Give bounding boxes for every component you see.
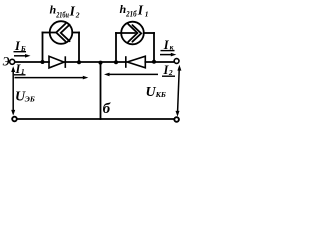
- svg-text:к: к: [170, 42, 174, 51]
- current source J2 (h21b*I1) circle: [121, 22, 144, 45]
- svg-text:I: I: [137, 2, 144, 17]
- node: junction dot left loop right: [77, 60, 81, 64]
- terminal: bottom-right port circle: [174, 117, 179, 122]
- label underline for I1: [14, 74, 26, 76]
- label Uэб: [15, 90, 35, 105]
- svg-text:б: б: [103, 101, 111, 117]
- svg-text:2: 2: [168, 68, 173, 77]
- svg-text:Б: Б: [20, 44, 26, 53]
- terminal Э (emitter) open circle: [10, 59, 15, 64]
- label underline for I2: [162, 75, 175, 77]
- wire: left source loop top-right horizontal: [72, 32, 79, 34]
- label I2: [163, 63, 173, 77]
- node: junction dot base branch: [99, 61, 103, 65]
- wire: left source loop right vertical: [78, 33, 80, 63]
- svg-text:2: 2: [75, 11, 80, 20]
- svg-text:Э: Э: [3, 53, 10, 68]
- svg-text:КБ: КБ: [155, 90, 166, 99]
- current arrow I2 (through collector diode, leftward): [104, 73, 158, 77]
- wire: right source loop right vertical: [153, 33, 155, 62]
- svg-text:I: I: [69, 3, 76, 18]
- svg-text:21б: 21б: [125, 10, 137, 19]
- wire: main top rail from emitter terminal to left diode: [15, 61, 49, 63]
- voltage arrow Uэб (double headed, left side): [11, 66, 15, 115]
- terminal К (collector) open circle: [174, 59, 179, 64]
- svg-text:ЭБ: ЭБ: [25, 94, 35, 103]
- node: junction dot right loop right: [152, 60, 156, 64]
- wire: left source loop top-left horizontal: [43, 32, 50, 34]
- current source J1 (h21bi*I2) circle: [50, 21, 73, 44]
- svg-text:21би: 21би: [55, 11, 69, 20]
- node: junction dot right loop left: [114, 60, 118, 64]
- wire: base branch vertical: [100, 63, 102, 120]
- label underline for Iк: [161, 50, 175, 52]
- wire: right source loop top-left horizontal: [116, 32, 121, 34]
- diode VD2 (collector junction, pointing left): [126, 56, 146, 68]
- wire: left source loop left vertical: [42, 33, 44, 63]
- current source J2 arrow (double chevron right): [122, 24, 142, 42]
- label underline for Iэ: [14, 51, 27, 53]
- wire: main top rail from right diode to collector terminal: [145, 61, 174, 63]
- svg-text:1: 1: [145, 9, 149, 18]
- svg-text:1: 1: [21, 67, 25, 76]
- wire: bottom base rail: [17, 118, 174, 120]
- wire: main top rail between diodes: [65, 61, 126, 63]
- voltage arrow Uкб (double headed, right side): [176, 65, 182, 117]
- current source J1 arrow (double chevron left): [50, 24, 69, 42]
- terminal: bottom-left port circle: [12, 117, 17, 122]
- current arrow Iэ (into emitter lead): [14, 54, 31, 58]
- label I1: [15, 62, 25, 76]
- wire: right source loop left vertical: [115, 33, 117, 62]
- label Uкб: [146, 85, 166, 100]
- label h21би I2 (left controlled source value): [50, 3, 80, 20]
- diode VD1 (emitter junction, pointing right): [49, 56, 65, 68]
- label Iэ: [14, 39, 26, 53]
- current arrow I1 (through emitter diode, rightward): [15, 76, 89, 80]
- label h21б I1 (right controlled source value): [120, 2, 149, 19]
- label Iк: [163, 38, 174, 52]
- wire: right source loop top-right horizontal: [144, 32, 154, 34]
- current arrow Iк (out of collector lead): [160, 53, 176, 57]
- node: junction dot left loop left: [41, 60, 45, 64]
